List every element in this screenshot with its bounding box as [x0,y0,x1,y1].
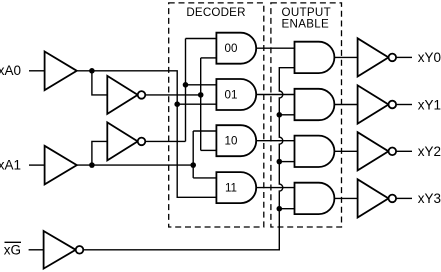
svg-text:00: 00 [225,42,238,55]
svg-text:xY0: xY0 [418,50,441,65]
svg-text:xY1: xY1 [418,97,441,112]
svg-text:DECODER: DECODER [186,6,245,19]
svg-text:11: 11 [225,182,237,195]
svg-text:xY2: xY2 [418,144,441,159]
svg-text:xA0: xA0 [0,63,21,78]
svg-text:xY3: xY3 [418,191,441,206]
svg-text:10: 10 [225,135,238,148]
svg-text:xG: xG [4,243,21,258]
svg-text:01: 01 [225,89,238,102]
svg-text:ENABLE: ENABLE [282,18,330,31]
svg-text:xA1: xA1 [0,158,21,173]
